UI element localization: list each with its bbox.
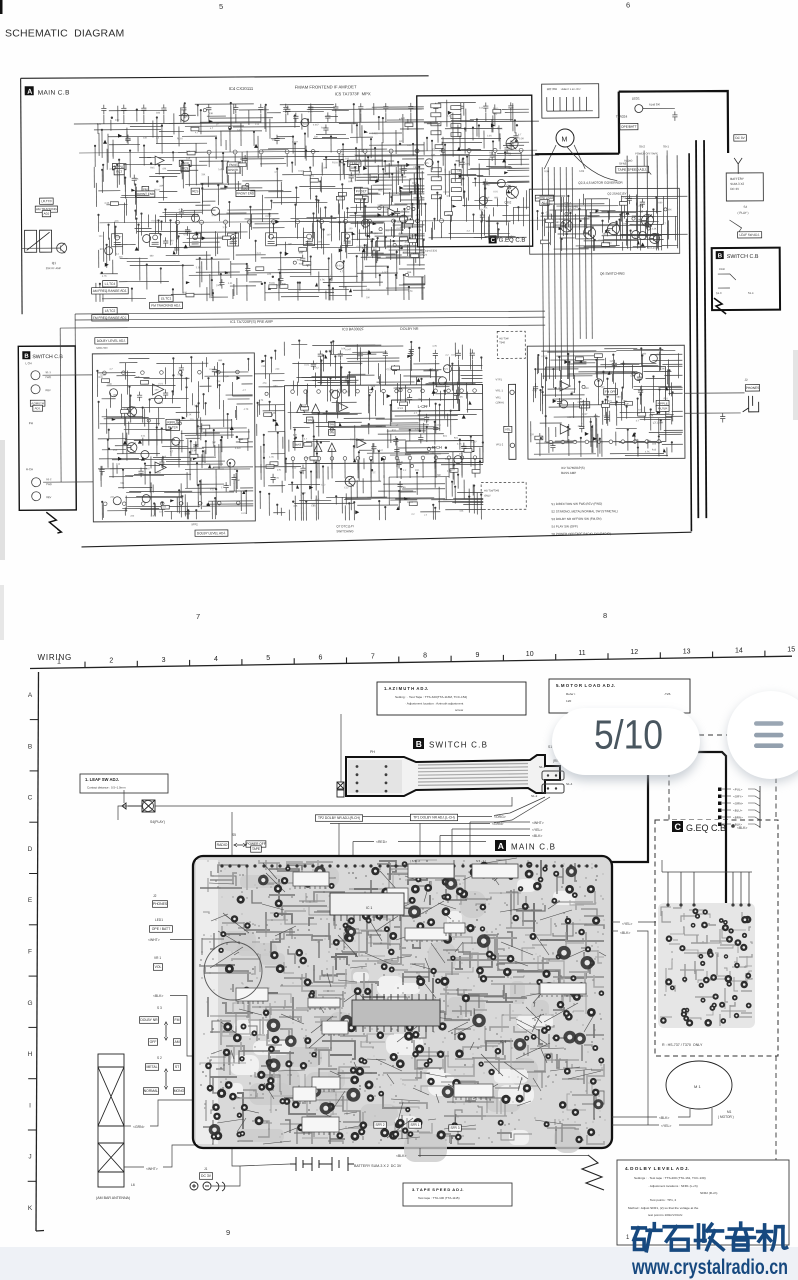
IC3 pin drop (344, 460, 346, 478)
IF transformer T7 (342, 232, 353, 245)
svg-text:RIPPLE: RIPPLE (658, 401, 668, 405)
GEQ resistor row2-1 (431, 177, 441, 181)
switch S1-1 body (542, 771, 564, 780)
J1 wire (211, 1166, 240, 1186)
label B SWITCH C.B bottom page (413, 738, 488, 750)
motor lead R (574, 145, 585, 169)
svg-text:R21: R21 (472, 464, 477, 467)
capacitor C4 (161, 104, 166, 114)
pin drop (260, 154, 262, 167)
svg-text:· Adjustment location : Azimut: · Adjustment location : Azimuth adjustme… (405, 702, 463, 706)
svg-text:S 5 - 1 ): S 5 - 1 ) (476, 859, 486, 863)
capacitor C8 (258, 104, 263, 114)
svg-text:C12: C12 (115, 119, 120, 122)
svg-text:C86: C86 (311, 506, 316, 508)
LED1 (635, 105, 643, 113)
YEL stub (612, 921, 620, 923)
J1 plug symbol (190, 1182, 225, 1191)
svg-text:10: 10 (526, 651, 534, 658)
svg-text:33K: 33K (585, 387, 590, 390)
svg-text:0.047: 0.047 (178, 496, 184, 498)
IC3 pin drop (461, 460, 463, 478)
svg-text:FWD: FWD (45, 376, 51, 379)
motor wire YEL b (679, 1108, 712, 1125)
svg-text:10K: 10K (459, 396, 464, 399)
svg-text:R45: R45 (365, 220, 370, 223)
svg-text:R103: R103 (497, 128, 503, 130)
svg-text:0.047: 0.047 (155, 472, 161, 474)
svg-text:<GRY>: <GRY> (733, 795, 743, 799)
box OFF (148, 1039, 157, 1046)
svg-text:C86: C86 (261, 366, 266, 368)
svg-text:C86: C86 (267, 273, 272, 276)
svg-text:4.7K: 4.7K (178, 208, 183, 211)
amp tri 1 (297, 404, 305, 412)
box L8 TC2 (103, 308, 117, 314)
watermark glyph kuang (633, 1224, 661, 1251)
leaf left wire (118, 806, 141, 820)
svg-text:L1,TC4: L1,TC4 (105, 282, 116, 286)
cap drop (457, 360, 459, 385)
box DOLBY LEVEL ADJ bottom (195, 530, 228, 537)
svg-text:10K: 10K (115, 221, 120, 223)
svg-text:S1-3: S1-3 (716, 291, 722, 295)
S5 arrows (234, 844, 246, 847)
svg-text:R45: R45 (424, 162, 429, 165)
svg-text:Q1: Q1 (52, 261, 57, 265)
svg-text:0.047: 0.047 (382, 272, 388, 274)
svg-text:MAIN C.B: MAIN C.B (511, 843, 556, 852)
pin drop (208, 154, 210, 167)
svg-text:5: 5 (266, 655, 270, 662)
box PHONES (745, 385, 759, 391)
menu icon bar 3 (754, 743, 784, 748)
scanner streak right (793, 350, 798, 420)
svg-text:3.3K: 3.3K (362, 195, 367, 197)
svg-text:VR1: VR1 (496, 395, 502, 399)
TP2 drop (338, 823, 340, 857)
svg-text:PH: PH (370, 750, 375, 754)
wire (183, 114, 185, 123)
ruler tick 12 (659, 652, 661, 658)
svg-text:L CH: L CH (25, 361, 31, 365)
svg-text:G.EQ C.B: G.EQ C.B (499, 238, 526, 244)
pin drop (416, 153, 418, 166)
svg-text:C86: C86 (660, 368, 665, 370)
svg-text:Q2,3,4,5 MOTOR GOVERNOR: Q2,3,4,5 MOTOR GOVERNOR (578, 181, 623, 185)
svg-text:33K: 33K (328, 349, 333, 352)
svg-text:1. A Z I M U T H A D J.: 1. A Z I M U T H A D J. (384, 686, 428, 691)
box FILTER (166, 424, 180, 430)
PCB trace texture (200, 858, 606, 1144)
box AM (173, 1039, 180, 1046)
PCB left strip (196, 860, 218, 1144)
svg-text:J1: J1 (204, 1167, 208, 1171)
GEQ resistor row1b-2 (451, 124, 461, 128)
S2 arrow (165, 1069, 168, 1089)
svg-text:R21: R21 (299, 471, 304, 474)
svg-text:PV DET: PV DET (356, 189, 367, 193)
label A MAIN C.B bottom page (495, 840, 556, 852)
svg-text:0.022: 0.022 (304, 457, 311, 460)
wire mesh (filler wiring) (284, 338, 484, 520)
svg-text:VOL: VOL (155, 965, 162, 969)
capacitor C18 (508, 102, 513, 112)
YEL run (452, 828, 530, 830)
svg-text:33K: 33K (192, 450, 197, 452)
svg-text:1uF: 1uF (194, 405, 199, 407)
IC4 bottom pins (176, 219, 444, 225)
letter tick B (30, 770, 38, 772)
svg-text:DOLBY LEVEL ADJ.: DOLBY LEVEL ADJ. (97, 339, 126, 343)
svg-text:S4: S4 (743, 205, 747, 209)
svg-text:1. LEAF SW ADJ.: 1. LEAF SW ADJ. (85, 777, 119, 782)
svg-text:10K: 10K (186, 150, 191, 153)
svg-text:0.01: 0.01 (304, 365, 309, 367)
svg-text:TAPE SPEED ADJ.: TAPE SPEED ADJ. (618, 168, 647, 172)
wire mesh (filler wiring) (256, 350, 285, 516)
svg-text:33K: 33K (446, 214, 451, 217)
capacitor dolby top 3 (383, 350, 388, 360)
svg-text:1uF: 1uF (135, 376, 140, 379)
svg-text:S4(PLAY): S4(PLAY) (150, 820, 165, 824)
capacitor dolby top 1 (338, 350, 343, 360)
switch pin c (547, 787, 549, 789)
svg-text:47K: 47K (109, 168, 114, 171)
svg-text:10K: 10K (407, 145, 412, 147)
box DC 3V bottom (200, 1173, 213, 1180)
main C.B border bottom (81, 532, 691, 547)
svg-text:ONLY: ONLY (484, 494, 491, 497)
svg-text:R103: R103 (560, 219, 566, 221)
capacitor near LED (672, 111, 677, 121)
svg-text:S4 PLAY SW (OFF): S4 PLAY SW (OFF) (551, 524, 577, 528)
YEL stub b (638, 921, 656, 923)
svg-text:680: 680 (373, 248, 378, 251)
svg-text:14: 14 (735, 648, 743, 655)
box AM IF (179, 160, 191, 166)
wire (385, 113, 387, 122)
letter ruler foot (36, 1230, 44, 1233)
dashed wire between overlays (690, 734, 764, 736)
pin drop (225, 224, 227, 239)
svg-text:9: 9 (226, 1228, 230, 1237)
svg-text:PHONES: PHONES (746, 386, 759, 390)
GEQ resistor row1b-3 (451, 133, 461, 137)
svg-text:L3 1.5uH: L3 1.5uH (653, 420, 664, 424)
letter tick A (30, 719, 38, 721)
ruler tick 13 (712, 652, 714, 658)
governor feed wire 1 (626, 156, 629, 249)
governor cross wire (621, 195, 687, 197)
svg-text:C: C (675, 822, 682, 832)
label B SWITCH C.B top page (716, 251, 759, 260)
page bottom margin tint (0, 1247, 798, 1280)
svg-text:BIAS: BIAS (295, 443, 302, 447)
pin drop (441, 223, 443, 238)
leaf pointer (123, 790, 125, 803)
svg-text:R45: R45 (348, 180, 353, 183)
GEQ resistor row1b-0 (451, 106, 461, 110)
GEQ feed wire (740, 872, 742, 905)
svg-text:R103: R103 (332, 162, 338, 164)
transistor Q9 (127, 443, 137, 453)
svg-text:LR,TC3: LR,TC3 (41, 199, 52, 203)
transistor Q8 (127, 407, 137, 417)
svg-text:C: C (28, 795, 33, 802)
svg-text:C86: C86 (652, 443, 657, 445)
R-CH bar (406, 441, 474, 452)
WHT drop (469, 822, 471, 857)
box AZIMUTH (30, 400, 45, 406)
svg-text:<YEL>: <YEL> (532, 828, 542, 832)
pin drop (249, 224, 251, 239)
svg-text:10K: 10K (113, 394, 118, 397)
capacitor C14 (408, 103, 413, 113)
svg-text:AZIMUTH: AZIMUTH (31, 401, 43, 405)
transistor Q6 (641, 214, 653, 226)
GEQ resistor row1-3 (431, 131, 441, 135)
ruler tick 2 (136, 661, 138, 667)
IC3 pin drop (370, 460, 372, 478)
phones jack symbol (743, 396, 759, 412)
svg-text:FM FREQ.RANGE ADJ.: FM FREQ.RANGE ADJ. (93, 316, 127, 320)
left drop 2 (59, 328, 62, 482)
battery wire left (240, 1164, 290, 1166)
GEQ resistor row1-1 (431, 113, 441, 117)
box SFR1 (409, 1122, 422, 1128)
box FM OFF (604, 389, 618, 395)
svg-text:1uF: 1uF (625, 403, 630, 406)
svg-text:0.01: 0.01 (159, 383, 164, 385)
hairline bus (79, 150, 537, 153)
capacitor C2 (121, 105, 126, 115)
motor wire YEL a (612, 1124, 659, 1126)
svg-text:10K: 10K (667, 208, 672, 211)
svg-text:R45: R45 (315, 499, 320, 501)
wire (460, 113, 462, 122)
parts cluster (C/R/Q filler) (98, 360, 249, 518)
op-amp bass L (560, 381, 570, 391)
ruler tick 1 (84, 662, 86, 668)
wire (510, 112, 512, 121)
svg-text:S 2: S 2 (157, 1056, 162, 1060)
svg-text:R103: R103 (269, 282, 275, 285)
svg-text:DC 3V: DC 3V (730, 187, 739, 191)
wire R fwd (43, 481, 93, 483)
svg-text:R45: R45 (343, 380, 348, 383)
svg-text:0.01: 0.01 (141, 436, 146, 438)
PCB top pad row (220, 864, 597, 867)
svg-text:R45: R45 (399, 119, 404, 121)
wire (310, 114, 312, 123)
GEQ resistor row1b-1 (451, 115, 461, 119)
svg-text:S1-4: S1-4 (566, 782, 573, 786)
GEQ stub (722, 823, 731, 825)
sw wire a (718, 274, 736, 280)
menu button circle (727, 691, 798, 779)
svg-text:3.3K: 3.3K (487, 135, 492, 137)
svg-text:47K: 47K (399, 461, 404, 464)
GEQ stub (722, 802, 731, 804)
box DC 3V top (734, 135, 747, 141)
IC3 pin drop (357, 460, 359, 478)
svg-text:4.7K: 4.7K (102, 275, 107, 278)
switch S1-2 body (542, 784, 564, 793)
AM bar antenna L6 (98, 1054, 124, 1187)
BLK drop (439, 836, 441, 858)
motor M1 (666, 1061, 732, 1109)
op-amp d2 (357, 439, 366, 448)
capacitor C16 (458, 103, 463, 113)
box DOLBY NR (140, 1017, 159, 1024)
GEQ stub (722, 788, 731, 790)
IF transformer T5 (266, 233, 277, 246)
svg-text:R-CH: R-CH (26, 467, 33, 471)
svg-text:6: 6 (626, 1, 630, 10)
GEQ connector pad (718, 823, 722, 827)
svg-text:DOLBY LEVEL ADJ.: DOLBY LEVEL ADJ. (197, 531, 226, 535)
ribbon pad (385, 765, 388, 768)
svg-text:R103: R103 (493, 108, 499, 110)
svg-text:3.3K: 3.3K (235, 165, 240, 168)
svg-text:R45: R45 (329, 278, 334, 280)
svg-text:33K: 33K (159, 184, 164, 187)
svg-text:<BLU>: <BLU> (733, 809, 743, 813)
BLK stub (612, 930, 618, 932)
svg-text:<YEL>: <YEL> (622, 922, 632, 926)
box AZIMUTH ADJ (33, 405, 43, 411)
box PHONES bottom (153, 901, 168, 908)
amp tri 3 (314, 443, 322, 451)
svg-text:3.3K: 3.3K (301, 493, 306, 495)
svg-text:IC2 TA7658AP(S): IC2 TA7658AP(S) (561, 466, 585, 470)
svg-text:Contact distance : 0.5~1.0mm: Contact distance : 0.5~1.0mm (87, 786, 126, 790)
ribbon pad (356, 790, 359, 793)
link bus 3 (60, 325, 545, 328)
box TP1 DOLBY NR ADJ (410, 814, 457, 821)
IF transformer T1 (112, 234, 123, 247)
ribbon pad (385, 773, 388, 776)
svg-text:J2: J2 (744, 378, 748, 382)
capacitor dolby top 7 (470, 350, 475, 360)
svg-text:AM: AM (174, 1040, 179, 1044)
svg-text:R103: R103 (301, 405, 307, 407)
svg-text:POWER OFF/TAPE: POWER OFF/TAPE (635, 151, 658, 155)
svg-text:C12: C12 (385, 229, 390, 232)
switch pin d (555, 787, 557, 789)
parts cluster (C/R/Q filler) (540, 194, 672, 246)
ribbon inner shade (348, 760, 402, 793)
svg-text:VOL: VOL (505, 427, 511, 431)
svg-text:· Adjustment locations : SFR1: · Adjustment locations : SFR1 (L-ch) (648, 1184, 698, 1188)
svg-text:R45: R45 (210, 468, 215, 470)
hairline bus (100, 220, 545, 223)
fan wire GRN (494, 797, 550, 823)
svg-text:C86: C86 (578, 362, 583, 364)
svg-text:47K: 47K (545, 212, 550, 214)
svg-text:4.7K: 4.7K (415, 428, 420, 431)
svg-text:3.3K: 3.3K (104, 202, 109, 205)
op-amp preamp L (153, 384, 164, 395)
label C G.EQ C.B (489, 235, 526, 244)
dashed vert right (775, 778, 777, 820)
svg-text:Settings : · Test tape : TTS-2: Settings : · Test tape : TTS-200 (TTA-16… (634, 1176, 706, 1180)
ruler tick 8 (450, 656, 452, 662)
page pill (552, 708, 700, 775)
box FM IF (227, 162, 239, 168)
wire (208, 114, 210, 123)
IF transformer T6 (304, 233, 315, 246)
svg-text:33K: 33K (647, 440, 652, 442)
menu icon bar 1 (754, 721, 784, 726)
capacitor C1 (101, 105, 106, 115)
GEQ board texture and pads (660, 904, 752, 1027)
svg-text:<BLK>: <BLK> (396, 1154, 406, 1158)
svg-text:0.047: 0.047 (345, 349, 351, 351)
IC3 pin drop (331, 460, 333, 478)
wire (163, 114, 165, 123)
GEQ stub (722, 795, 731, 797)
svg-text:REV: REV (46, 496, 51, 499)
svg-text:4: 4 (214, 656, 218, 663)
phones cap (720, 413, 725, 423)
op-amp d1 (339, 403, 348, 412)
vertical bus 3 (554, 167, 555, 379)
capacitor C5 (181, 104, 186, 114)
svg-text:SCHEMATIC DIAGRAM: SCHEMATIC DIAGRAM (5, 28, 125, 40)
capacitor dolby top 5 (433, 350, 438, 360)
svg-text:PH: PH (29, 421, 33, 425)
capacitor C17 (483, 102, 488, 112)
svg-text:L8,TC2: L8,TC2 (105, 309, 116, 313)
box SW1 (307, 417, 313, 423)
svg-text:0.047: 0.047 (578, 402, 584, 404)
svg-text:0.047: 0.047 (237, 130, 243, 132)
IC3 pin drop (422, 460, 424, 478)
svg-text:Q302: Q302 (504, 200, 511, 204)
S5-2 switch footprint (408, 864, 454, 878)
svg-text:9: 9 (475, 652, 479, 659)
GEQ connector pad (718, 816, 722, 820)
jack REV R (32, 492, 41, 501)
transistor Q6b (650, 233, 660, 243)
IC3 bottom pins (291, 456, 477, 461)
svg-text:33K: 33K (216, 381, 221, 383)
svg-text:33K: 33K (120, 483, 125, 485)
box FILT (114, 169, 124, 175)
svg-text:A: A (27, 89, 32, 96)
RED run (398, 841, 486, 843)
spacer (440, 821, 530, 823)
GEQ resistor row2b-0 (451, 170, 461, 174)
svg-text:R103: R103 (398, 408, 404, 410)
WHT run (470, 821, 530, 823)
svg-text:ST: ST (175, 1065, 179, 1069)
svg-text:100: 100 (405, 398, 410, 401)
svg-text:DISCRI: DISCRI (228, 168, 238, 172)
capacitor C15 (433, 103, 438, 113)
box MOTOR LOAD (535, 195, 553, 201)
box RIPPLE2 (656, 400, 669, 406)
svg-text:1uF: 1uF (288, 244, 293, 246)
svg-text:FM OFF: FM OFF (605, 390, 616, 394)
IC3 top pins (291, 389, 477, 394)
svg-text:<RED>: <RED> (376, 840, 387, 844)
VR1 slider (509, 384, 516, 459)
svg-text:FRONT END: FRONT END (237, 191, 255, 195)
L-CH bar (392, 400, 460, 411)
